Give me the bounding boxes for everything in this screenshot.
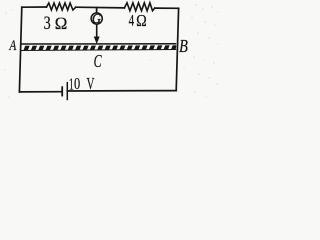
svg-text:B: B: [179, 35, 188, 56]
bar hatching: [25, 43, 181, 52]
resistor R1 (3 ohm): [47, 3, 76, 10]
value label 4 ohm: [129, 12, 147, 31]
wire bottom-right segment: [67, 90, 176, 92]
svg-text:Ω: Ω: [136, 12, 147, 30]
wire top-middle segment: [76, 6, 125, 9]
bridge wire AB (hatched bar): [21, 43, 182, 52]
wire bottom-left segment: [19, 91, 61, 93]
jockey arrow to node C: [94, 24, 99, 43]
value label 3 ohm: [44, 12, 68, 34]
svg-text:4: 4: [129, 12, 135, 29]
svg-text:V: V: [86, 75, 95, 94]
galvanometer U1 circle: [91, 13, 102, 24]
wire top-left segment: [22, 6, 47, 8]
battery B1 long plate: [66, 82, 68, 100]
wire top-right segment: [155, 7, 179, 9]
svg-text:C: C: [94, 52, 103, 72]
battery B1 short plate: [61, 86, 63, 96]
value label 10 V: [69, 75, 95, 94]
svg-text:0: 0: [74, 75, 80, 93]
wire stub to galvanometer: [96, 8, 98, 13]
wire left vertical: [19, 7, 21, 92]
svg-text:3: 3: [44, 12, 51, 34]
svg-text:1: 1: [69, 75, 74, 93]
svg-text:G: G: [92, 12, 101, 26]
svg-text:A: A: [9, 36, 18, 53]
wire right vertical: [176, 8, 178, 90]
bar bottom edge: [21, 50, 177, 51]
bar top edge: [21, 43, 177, 45]
resistor R2 (4 ohm): [124, 3, 154, 11]
svg-text:Ω: Ω: [54, 14, 67, 33]
